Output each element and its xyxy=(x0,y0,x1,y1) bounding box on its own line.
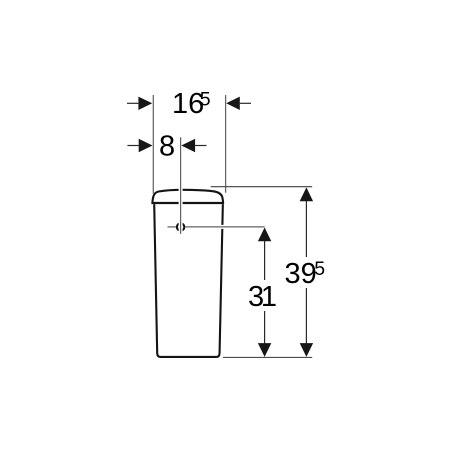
cistern lid bottom edge xyxy=(151,202,224,204)
dim 31 line lower segment xyxy=(264,311,266,356)
extension line x=225.6 (right face, for dim 16.5) xyxy=(225,95,227,193)
dim 16.5 left arrow xyxy=(138,97,152,110)
cistern body outline xyxy=(154,204,223,357)
lever hole xyxy=(177,223,184,230)
dim 39.5 line lower segment xyxy=(305,288,307,356)
extension line casing at x=180.6 (white) xyxy=(179,137,183,234)
dim 39.5 top arrow xyxy=(300,187,313,201)
centerline casing through hole (white) xyxy=(185,225,264,229)
dim 16.5 left tail xyxy=(127,102,138,104)
centerline through hole, left stub xyxy=(168,226,177,228)
svg-text:8: 8 xyxy=(159,130,175,162)
extension line x=180.6 (hole center, for dim 8) xyxy=(180,137,182,234)
dim 31 line upper segment xyxy=(264,229,266,281)
dim 8 left arrow xyxy=(139,139,153,152)
extension line x=153.3 (left face, for dims 16.5 and 8) xyxy=(152,95,154,194)
dim 8 right tail xyxy=(195,145,206,147)
dim 8 right arrow xyxy=(181,139,195,152)
baseline under cistern (for dims 31 and 39.5) xyxy=(223,356,312,358)
centerline through hole, right segment to 31 dim line xyxy=(185,226,264,228)
dim 16.5 right arrow xyxy=(226,97,240,110)
reference line top of lid (for dim 39.5) xyxy=(211,186,313,188)
dim 8 left tail xyxy=(127,145,138,147)
svg-text:31: 31 xyxy=(248,281,277,313)
cistern lid outline xyxy=(152,190,223,203)
dim 31 top arrow xyxy=(258,228,271,242)
dim 39.5 bottom arrow xyxy=(300,343,313,357)
dim 39.5 line upper segment xyxy=(305,188,307,257)
dim 31 bottom arrow xyxy=(258,343,271,357)
dim 16.5 right tail xyxy=(240,102,251,104)
